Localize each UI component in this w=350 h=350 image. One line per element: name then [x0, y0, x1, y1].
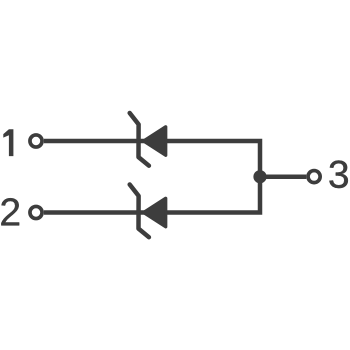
wire pin1 to diode D1 — [44, 139, 145, 144]
wire pin2 to diode D2 — [44, 210, 145, 215]
pin label 2 — [1, 198, 19, 225]
zener diode D2 cathode bar with bent ends — [130, 185, 149, 238]
zener diode D1 cathode bar with bent ends — [130, 113, 149, 166]
zener diode D1 anode triangle — [144, 127, 166, 156]
pin label 1 — [3, 129, 13, 156]
terminal circle pin 2 — [30, 206, 42, 218]
wire D1 anode right, vertical bus down, to D2 anode — [166, 141, 260, 213]
terminal circle pin 3 — [308, 171, 320, 183]
terminal circle pin 1 — [30, 135, 42, 147]
junction node dot — [253, 170, 266, 183]
wire junction to pin 3 — [260, 174, 306, 179]
zener diode D2 anode triangle — [144, 198, 166, 227]
pin label 3 — [329, 160, 347, 188]
